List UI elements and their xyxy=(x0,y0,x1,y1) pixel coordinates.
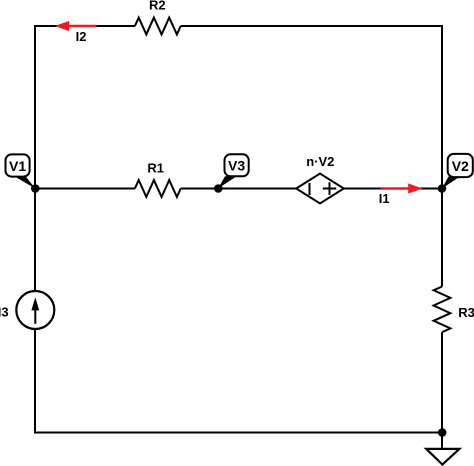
ground stub xyxy=(441,433,443,449)
svg-text:R1: R1 xyxy=(147,161,164,176)
arrow inside current source xyxy=(34,308,36,324)
node V3 callout wedge xyxy=(218,176,237,188)
resistor R1 xyxy=(135,180,181,197)
node V2 box xyxy=(448,154,473,177)
dependent source U1 (diamond) xyxy=(296,174,344,204)
wire right vertical (R3 to bottom corner) xyxy=(441,332,443,432)
node V1 callout wedge xyxy=(13,176,35,189)
junction node V2 xyxy=(438,184,447,193)
svg-text:I2: I2 xyxy=(76,29,87,44)
wire left vertical (top corner to current source) xyxy=(34,25,36,291)
resistor R2 xyxy=(135,18,181,35)
junction node V3 xyxy=(214,184,223,193)
wire bottom xyxy=(34,432,442,434)
wire middle: node V1 to R1 xyxy=(35,188,135,190)
svg-text:R3: R3 xyxy=(458,305,474,320)
wire middle: diamond to node V2 xyxy=(344,188,442,190)
plus sign inside source xyxy=(323,182,336,195)
node V3 box xyxy=(225,154,249,176)
svg-text:R2: R2 xyxy=(149,0,166,13)
wire middle: R1 to diamond xyxy=(181,188,297,190)
resistor R3 xyxy=(434,287,451,333)
wire right vertical (node V2 to R3) xyxy=(441,189,443,287)
current arrow I2 (red, pointing left) xyxy=(66,25,97,28)
node V1 box xyxy=(6,154,30,176)
wire right vertical (top corner to node V2) xyxy=(441,25,443,189)
svg-text:V2: V2 xyxy=(452,158,469,174)
current arrow I1 (red, pointing right) xyxy=(381,187,410,190)
wire left vertical (current source to bottom corner) xyxy=(34,329,36,433)
svg-text:I1: I1 xyxy=(379,191,390,206)
current source I3 (circle) xyxy=(16,291,54,329)
ground xyxy=(426,449,459,465)
svg-text:n·V2: n·V2 xyxy=(306,154,334,169)
wire top: left corner to R2 xyxy=(35,25,135,27)
node V2 callout wedge xyxy=(442,177,460,189)
svg-text:V3: V3 xyxy=(228,158,245,174)
junction ground node xyxy=(438,428,447,437)
wire top: R2 to right corner xyxy=(181,25,442,27)
svg-text:I3: I3 xyxy=(0,305,9,320)
svg-text:V1: V1 xyxy=(9,158,26,174)
minus bar inside source xyxy=(309,183,311,195)
junction node V1 xyxy=(31,184,40,193)
